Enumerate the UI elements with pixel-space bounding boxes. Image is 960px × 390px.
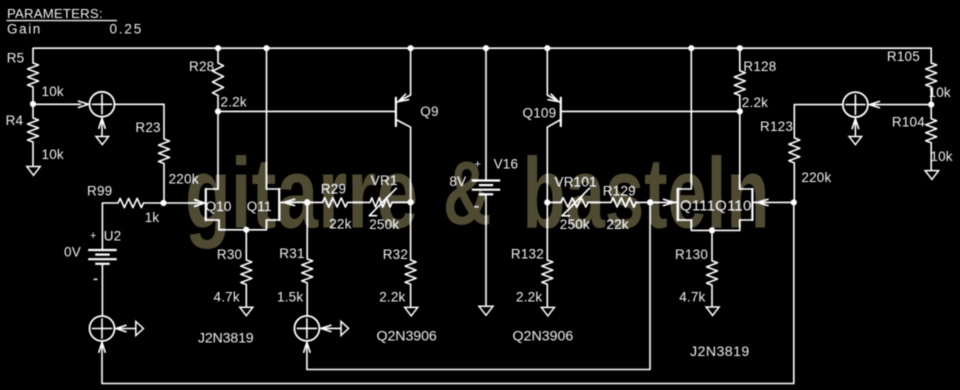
svg-text:1.5k: 1.5k <box>277 289 303 304</box>
svg-text:250k: 250k <box>560 217 590 232</box>
svg-text:R32: R32 <box>383 247 408 262</box>
svg-text:10k: 10k <box>930 149 952 164</box>
svg-text:22k: 22k <box>329 217 351 232</box>
svg-text:Q111Q110: Q111Q110 <box>680 197 752 214</box>
svg-text:R5: R5 <box>7 50 25 65</box>
svg-text:Q10: Q10 <box>206 199 232 214</box>
svg-text:250k: 250k <box>369 217 399 232</box>
svg-text:VR101: VR101 <box>555 175 597 190</box>
svg-text:10k: 10k <box>42 84 64 99</box>
svg-text:0V: 0V <box>64 245 81 260</box>
svg-text:2.2k: 2.2k <box>379 290 405 305</box>
svg-text:R105: R105 <box>887 49 920 64</box>
svg-text:R128: R128 <box>743 59 776 74</box>
svg-text:R99: R99 <box>87 184 112 199</box>
svg-text:VR1: VR1 <box>371 173 398 188</box>
svg-text:8V: 8V <box>449 174 466 189</box>
svg-text:R129: R129 <box>603 183 636 198</box>
svg-text:+: + <box>90 230 97 242</box>
svg-text:10k: 10k <box>42 147 64 162</box>
svg-text:Q11: Q11 <box>247 199 272 214</box>
svg-text:+: + <box>475 159 482 171</box>
svg-text:R4: R4 <box>6 113 24 128</box>
svg-text:Q2N3906: Q2N3906 <box>513 329 574 345</box>
svg-text:2.2k: 2.2k <box>221 95 247 110</box>
svg-text:R130: R130 <box>675 247 708 262</box>
svg-text:4.7k: 4.7k <box>214 290 240 305</box>
svg-text:0.25: 0.25 <box>110 22 142 37</box>
svg-text:2.2k: 2.2k <box>516 290 542 305</box>
svg-text:2.2k: 2.2k <box>742 95 768 110</box>
svg-text:Q109: Q109 <box>523 106 557 121</box>
svg-text:gitarre: gitarre <box>185 138 418 250</box>
svg-text:R104: R104 <box>892 115 925 130</box>
svg-text:J2N3819: J2N3819 <box>198 331 254 347</box>
svg-text:PARAMETERS:: PARAMETERS: <box>7 6 103 21</box>
svg-text:basteln: basteln <box>523 138 770 250</box>
svg-text:Q9: Q9 <box>420 104 438 119</box>
svg-text:R23: R23 <box>135 120 160 135</box>
svg-text:U2: U2 <box>104 229 122 244</box>
svg-text:220k: 220k <box>801 170 831 185</box>
svg-text:R123: R123 <box>760 119 793 134</box>
svg-text:R132: R132 <box>511 247 544 262</box>
svg-text:220k: 220k <box>169 172 199 187</box>
svg-text:R31: R31 <box>279 246 304 261</box>
svg-text:V16: V16 <box>494 157 519 172</box>
svg-text:1k: 1k <box>145 210 160 225</box>
svg-text:J2N3819: J2N3819 <box>690 344 750 360</box>
svg-text:4.7k: 4.7k <box>679 290 705 305</box>
svg-text:R28: R28 <box>189 59 214 74</box>
svg-text:Gain: Gain <box>7 22 41 37</box>
svg-text:10k: 10k <box>929 85 951 100</box>
svg-text:R29: R29 <box>321 182 346 197</box>
svg-text:22k: 22k <box>606 217 628 232</box>
svg-text:Q2N3906: Q2N3906 <box>377 328 438 344</box>
svg-text:R30: R30 <box>217 247 242 262</box>
